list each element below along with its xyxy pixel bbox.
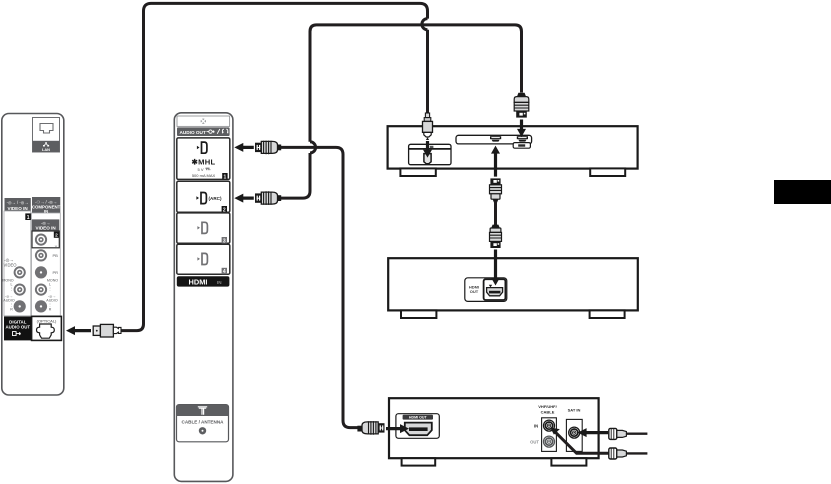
audio system (top device) chassis: [388, 126, 638, 176]
AUDIO OUT bar: [177, 127, 230, 136]
HDMI plug at MHL port (pointing left): [255, 141, 281, 155]
svg-text:1: 1: [27, 215, 30, 221]
screw hole header: [177, 116, 230, 126]
svg-text:VIDEO IN: VIDEO IN: [8, 206, 29, 211]
OPTICAL port: [32, 316, 62, 340]
svg-text:OUT: OUT: [530, 439, 539, 444]
svg-text:CABLE: CABLE: [541, 409, 555, 414]
jack PR (solid): [35, 266, 58, 278]
VHF/UHF/CABLE label: [538, 404, 580, 414]
optical cable plug (at TV): [93, 324, 121, 337]
left MONO / L / AUDIO / R markers: [2, 279, 14, 312]
LAN port: [33, 118, 60, 153]
svg-text:3: 3: [223, 238, 226, 244]
arrow up into audio system HDMI (left port) from BD player: [491, 146, 500, 177]
HDMI IN 2 (ARC) box: [177, 181, 230, 213]
svg-text:Y: Y: [55, 244, 58, 249]
svg-text:-◎→ / -◎→: -◎→ / -◎→: [7, 200, 29, 205]
jack AUDIO R left (solid): [14, 300, 26, 312]
svg-text:SAT IN: SAT IN: [568, 407, 581, 412]
cable box (bottom device) chassis: [389, 398, 599, 465]
COMPONENT IN label: [32, 197, 61, 214]
svg-text:2: 2: [55, 233, 58, 239]
VIDEO IN label: [5, 198, 31, 211]
jack AUDIO L left (ringed): [14, 284, 26, 296]
VHF/UHF jacks box: [542, 418, 557, 452]
svg-text:IN: IN: [217, 280, 222, 285]
jack PB (ringed): [35, 249, 58, 261]
svg-text:⋮: ⋮: [48, 287, 52, 291]
HDMI plug at ARC port (pointing left): [255, 191, 281, 205]
TV left AV panel outline: [2, 114, 64, 396]
svg-text:PB: PB: [53, 253, 59, 258]
arrow into BD player HDMI OUT: [491, 250, 500, 286]
svg-text:LAN: LAN: [42, 147, 50, 152]
audio system optical input port: [409, 144, 451, 164]
wire hop: ARC cable over MHL cable: [310, 142, 316, 153]
svg-text:AUDIO OUT: AUDIO OUT: [5, 325, 30, 330]
svg-text:PR: PR: [53, 270, 59, 275]
svg-text:L: L: [49, 283, 51, 287]
coax plug VHF (pointing left): [609, 448, 648, 459]
svg-text:⋮: ⋮: [48, 303, 52, 307]
svg-text:AUDIO OUT: AUDIO OUT: [180, 130, 206, 135]
DIGITAL AUDIO OUT label (black): [4, 316, 32, 340]
SAT IN jack box: [566, 419, 582, 451]
wire between the two middle HDMI plugs: [494, 201, 497, 226]
svg-text:L: L: [11, 283, 13, 287]
BD player HDMI OUT port: [465, 278, 507, 302]
wire: optical cable from TV DIGITAL AUDIO OUT up over the top to audio system: [121, 3, 428, 330]
svg-text:VIDEO IN: VIDEO IN: [36, 226, 57, 231]
wire hop: optical cable over ARC cable: [422, 19, 428, 30]
TV HDMI side panel outline: [174, 113, 233, 482]
svg-text:⋮: ⋮: [10, 287, 14, 291]
svg-text:5 V: 5 V: [197, 167, 203, 172]
jack AUDIO L right (ringed): [35, 284, 47, 296]
port number 1 marker (video in group): [25, 213, 31, 220]
video group box: [4, 211, 31, 316]
HDMI IN 4 box: [177, 244, 230, 275]
svg-text:IN: IN: [534, 423, 538, 428]
svg-text:✱MHL: ✱MHL: [191, 158, 215, 167]
HDMI plug above audio system (pointing down): [514, 93, 529, 118]
svg-text:4: 4: [223, 269, 226, 275]
HDMI plug below audio system (pointing up, from BD cable): [490, 178, 502, 202]
CABLE / ANTENNA box: [177, 405, 229, 442]
cable box HDMI OUT port: [396, 414, 439, 439]
svg-text:AUDIO: AUDIO: [3, 299, 15, 303]
arrow into OPTICAL port: [66, 326, 91, 335]
coax plug SAT (pointing left): [609, 428, 648, 439]
jack Y (ringed): [35, 234, 58, 250]
svg-text:⋮: ⋮: [10, 303, 14, 307]
VIDEO IN 2 sub-panel (composite on component): [32, 219, 59, 247]
component group box: [32, 213, 61, 316]
wire: HDMI cable from TV HDMI IN 2 (ARC) up over top to audio system HDMI: [281, 153, 310, 198]
HDMI IN 3 box: [177, 213, 230, 244]
svg-text:(ARC): (ARC): [209, 196, 222, 201]
BD player (middle device) chassis: [388, 258, 638, 318]
svg-text:R: R: [49, 308, 52, 312]
diagonal line from VHF IN jack to lower coax plug: [555, 432, 609, 454]
arrow into audio system optical port: [423, 141, 432, 158]
audio system HDMI jack strip: [456, 135, 532, 148]
HDMI IN 1 (MHL) box: [177, 138, 230, 180]
HDMI IN bar: [177, 276, 230, 286]
svg-text:VIDEO: VIDEO: [3, 263, 17, 268]
arrow into SAT IN jack: [578, 428, 609, 437]
video label + jack VIDEO (ringed): [3, 257, 25, 278]
coax jack OUT: [544, 436, 555, 447]
optical plug at audio system (vertical, pointing down): [423, 113, 433, 140]
svg-text:AUDIO: AUDIO: [46, 299, 58, 303]
arrow into HDMI IN 1 (MHL): [234, 143, 254, 152]
svg-text:1: 1: [224, 174, 227, 180]
HDMI plug pointing down at BD player: [490, 225, 502, 248]
right MONO / L / AUDIO / R markers: [46, 279, 58, 312]
svg-text:HDMI: HDMI: [189, 277, 208, 286]
arrowhead into VHF/UHF IN jack: [550, 428, 560, 435]
arrow into audio system HDMI (right port): [517, 120, 526, 137]
svg-text:R: R: [10, 308, 13, 312]
svg-text:(OPTICAL): (OPTICAL): [37, 318, 57, 323]
coax jack IN: [544, 420, 555, 431]
svg-text:500 mA MAX: 500 mA MAX: [192, 173, 216, 178]
page edge tab (black): [774, 180, 831, 204]
jack AUDIO R right (solid): [35, 300, 47, 312]
svg-text:OUT: OUT: [470, 289, 479, 294]
svg-text:HDMI OUT: HDMI OUT: [409, 416, 428, 420]
svg-text:CABLE / ANTENNA: CABLE / ANTENNA: [182, 420, 225, 425]
arrow into cable box HDMI OUT: [386, 424, 409, 433]
arrow into HDMI IN 2 (ARC): [234, 194, 254, 203]
HDMI plug at cable box (pointing right): [357, 421, 384, 435]
wire: HDMI cable from TV HDMI IN 1 (MHL) down to cable box HDMI OUT: [281, 147, 358, 427]
